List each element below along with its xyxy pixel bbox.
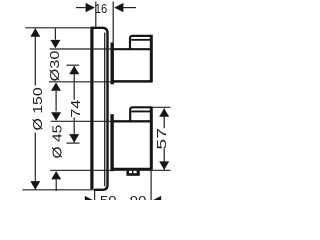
svg-text:50 - 90: 50 - 90	[100, 193, 147, 200]
svg-text:74: 74	[69, 100, 83, 118]
svg-text:57: 57	[154, 128, 169, 150]
svg-text:Ø 150: Ø 150	[31, 87, 45, 130]
svg-text:Ø30: Ø30	[48, 51, 62, 82]
svg-text:16: 16	[95, 1, 108, 16]
svg-text:Ø 45: Ø 45	[51, 125, 65, 159]
